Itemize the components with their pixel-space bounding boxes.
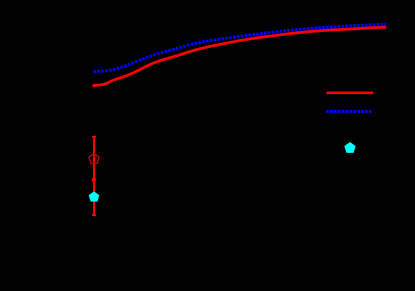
error bar top cap [92, 136, 96, 138]
data marker open red pentagon [89, 154, 99, 164]
data marker filled cyan pentagon [89, 191, 100, 201]
legend blue dashed line [326, 110, 372, 113]
legend cyan pentagon marker [344, 142, 355, 153]
legend red solid line [327, 91, 374, 94]
error bar bottom cap [92, 214, 96, 216]
curve blue dashed (model B) [94, 24, 387, 71]
data marker filled red square [92, 178, 96, 182]
error bar vertical line [93, 137, 95, 216]
curve red solid (model A) [93, 27, 387, 86]
